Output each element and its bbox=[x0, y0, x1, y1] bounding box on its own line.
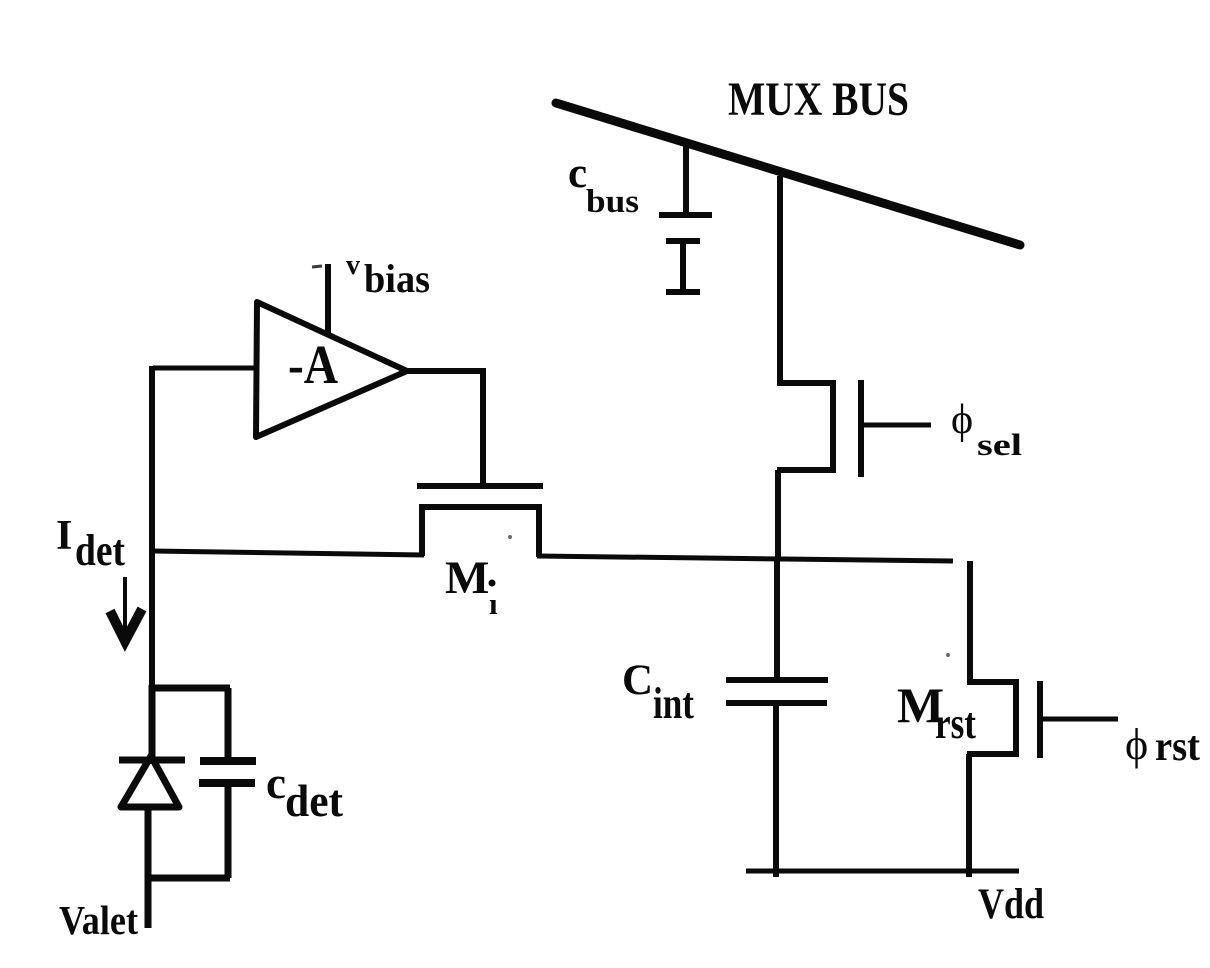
label M1 bbox=[445, 552, 498, 621]
svg-text:rst: rst bbox=[935, 699, 976, 748]
svg-text:Vdd: Vdd bbox=[978, 881, 1044, 928]
scan speck above Mrst bbox=[946, 653, 950, 657]
svg-text:Valet: Valet bbox=[59, 897, 138, 943]
svg-text:ı: ı bbox=[489, 586, 498, 621]
op-amp U1 inverting amplifier -A bbox=[256, 302, 407, 437]
svg-text:M: M bbox=[445, 552, 489, 604]
label Idet bbox=[56, 513, 125, 575]
svg-text:rst: rst bbox=[1155, 724, 1200, 770]
label Vbias bbox=[346, 250, 430, 301]
svg-text:ϕ: ϕ bbox=[1125, 720, 1148, 769]
photodiode D1 bbox=[119, 685, 185, 807]
capacitor Cdet bbox=[199, 688, 256, 878]
wire main node line right (Mi drain to Mrst) bbox=[537, 556, 953, 561]
wire bus tap down to phi_sel drain bbox=[777, 176, 783, 383]
wire Vbias lead bbox=[325, 264, 331, 333]
svg-text:-A: -A bbox=[288, 334, 338, 395]
label Cbus bbox=[568, 150, 639, 220]
scan speck near Mi bbox=[508, 535, 512, 539]
transistor Mrst reset MOSFET bbox=[967, 561, 1040, 877]
current arrow Idet bbox=[110, 577, 142, 641]
wire Vdd bottom rail bbox=[746, 869, 1019, 874]
svg-text:I: I bbox=[56, 513, 72, 559]
capacitor Cbus bbox=[659, 146, 712, 292]
wire amp input horizontal bbox=[153, 366, 258, 371]
transistor phi_sel select MOSFET bbox=[777, 380, 861, 558]
svg-text:c: c bbox=[568, 150, 587, 197]
wire Mrst gate lead bbox=[1041, 717, 1118, 722]
wire detector node vertical bbox=[149, 366, 155, 689]
wire main node line left (Idet node to Mi source) bbox=[152, 551, 424, 555]
svg-text:bias: bias bbox=[364, 256, 430, 301]
wire junction to Cdet branch bbox=[149, 685, 230, 692]
svg-text:int: int bbox=[653, 679, 694, 728]
svg-text:v: v bbox=[346, 250, 360, 281]
svg-text:ϕ: ϕ bbox=[951, 397, 973, 443]
wire MUX BUS (thick diagonal bus line) bbox=[556, 103, 1020, 245]
wire phi_sel gate lead bbox=[862, 423, 931, 428]
label Mrst bbox=[897, 677, 976, 748]
svg-text:sel: sel bbox=[977, 427, 1023, 462]
capacitor Cint bbox=[726, 561, 828, 877]
label phi sel bbox=[951, 397, 1023, 462]
transistor M1 feedback MOSFET bbox=[417, 486, 543, 557]
svg-text:c: c bbox=[266, 758, 286, 808]
svg-text:C: C bbox=[622, 657, 653, 704]
svg-text:MUX BUS: MUX BUS bbox=[728, 73, 909, 126]
wire amp output to Mi gate bbox=[407, 371, 483, 486]
wire bottom connector diode to Cdet bbox=[145, 875, 230, 882]
label phi rst bbox=[1125, 720, 1200, 770]
svg-text:bus: bus bbox=[586, 184, 639, 220]
label Cint bbox=[622, 657, 694, 728]
wire photodiode anode lead bbox=[145, 807, 152, 928]
label cdet bbox=[266, 758, 344, 826]
svg-text:det: det bbox=[75, 526, 125, 575]
svg-text:det: det bbox=[285, 775, 344, 826]
